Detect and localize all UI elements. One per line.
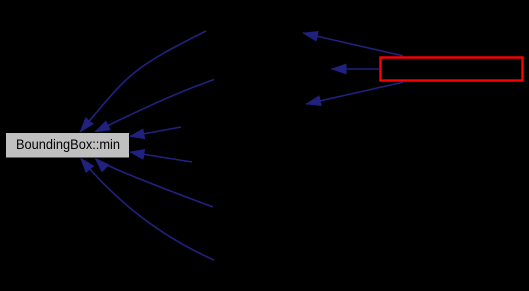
wire: edge E2 from red node <box>332 68 380 70</box>
node BoundingBox::min <box>6 133 130 159</box>
wire: edge from node1 to BoundingBox::min (top arc C1) <box>80 31 206 132</box>
wire: edge C2 <box>95 80 214 133</box>
wire: edge C5 <box>95 158 213 207</box>
wire: edge C3 <box>130 127 182 137</box>
node: red truncated node <box>381 58 523 81</box>
wire: edge E3 from red node <box>306 82 403 104</box>
wire: edge C6 <box>81 158 215 260</box>
wire: edge C4 <box>130 152 193 162</box>
svg-text:BoundingBox::min: BoundingBox::min <box>16 136 120 152</box>
wire: edge E1 from red node <box>303 33 403 56</box>
